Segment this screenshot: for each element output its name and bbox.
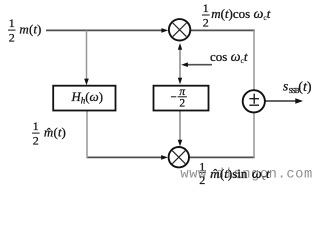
svg-text:(t): (t) bbox=[54, 125, 66, 140]
svg-text:s: s bbox=[283, 79, 288, 94]
svg-text:1: 1 bbox=[9, 16, 15, 30]
svg-text:2: 2 bbox=[199, 173, 205, 187]
svg-text:m̂: m̂ bbox=[44, 125, 53, 140]
svg-text:2: 2 bbox=[9, 31, 15, 45]
svg-text:(t): (t) bbox=[29, 22, 41, 37]
svg-text:1: 1 bbox=[203, 1, 209, 15]
svg-text:Hh(ω): Hh(ω) bbox=[71, 89, 103, 106]
svg-text:2: 2 bbox=[33, 134, 39, 148]
svg-text:2: 2 bbox=[179, 98, 185, 110]
svg-text:1: 1 bbox=[33, 119, 39, 133]
svg-text:m̂: m̂ bbox=[210, 166, 219, 181]
svg-text:(t): (t) bbox=[298, 80, 312, 95]
svg-text:m: m bbox=[19, 22, 28, 37]
svg-text:m(t)cos ωct: m(t)cos ωct bbox=[211, 6, 271, 22]
svg-text:2: 2 bbox=[203, 15, 209, 29]
svg-text:1: 1 bbox=[199, 159, 205, 173]
